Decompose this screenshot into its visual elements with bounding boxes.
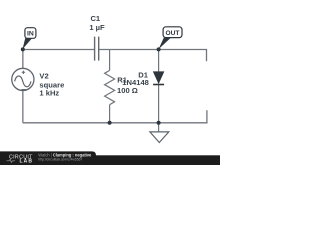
svg-text:Watch | Clamping : negative: Watch | Clamping : negative — [38, 152, 92, 157]
svg-text:1N4148: 1N4148 — [122, 78, 149, 87]
node dot OUT — [157, 47, 161, 51]
svg-text:1 µF: 1 µF — [89, 23, 105, 32]
wire: bottom rail with right-side stub — [23, 110, 207, 123]
svg-text:OUT: OUT — [166, 30, 180, 37]
wire: D1 top lead — [158, 50, 160, 73]
footer bar — [0, 155, 220, 165]
wire: R1 bottom lead — [109, 105, 111, 123]
ground symbol — [150, 132, 169, 143]
node dot IN — [21, 47, 25, 51]
svg-text:http://circuitlab.com/c/4w5567: http://circuitlab.com/c/4w5567 — [38, 158, 82, 162]
svg-text:100 Ω: 100 Ω — [117, 86, 138, 95]
wire: left rail upper segment (IN node to V2 top) — [22, 50, 24, 69]
svg-text:C1: C1 — [90, 14, 100, 23]
wire: ground stub — [158, 123, 160, 132]
svg-text:1 kHz: 1 kHz — [39, 89, 59, 98]
node dot ground junction — [157, 121, 161, 125]
voltage source V2 minus sign — [21, 89, 26, 91]
diode D1 cathode bar — [153, 84, 164, 86]
wire: top rail from IN node to C1 left plate — [23, 49, 94, 51]
resistor R1 zigzag — [105, 70, 115, 104]
net flag IN pointer wedge — [23, 38, 33, 49]
svg-text:V2: V2 — [39, 72, 48, 81]
net flag IN box — [25, 28, 36, 39]
wire: R1 top lead — [109, 50, 111, 71]
wire: top rail from C1 right plate through R1 tap and OUT node to right stub — [99, 50, 206, 62]
voltage source V2 circle — [12, 68, 34, 90]
footer logo/text plate — [0, 151, 96, 165]
node dot R1-bottom junction — [108, 121, 112, 125]
voltage source V2 sine symbol — [15, 76, 31, 87]
wire: D1 bottom lead — [158, 84, 160, 122]
voltage source V2 plus sign — [22, 71, 25, 74]
svg-text:IN: IN — [27, 31, 34, 38]
footer logo waveform — [7, 159, 16, 162]
capacitor C1 plates — [95, 37, 99, 61]
net flag OUT pointer wedge — [159, 38, 171, 50]
net flag OUT box — [163, 27, 182, 38]
diode D1 triangle (anode) — [153, 72, 164, 84]
wire: left rail lower segment (V2 bottom to bottom rail) — [22, 91, 24, 123]
svg-text:LAB: LAB — [20, 159, 34, 165]
